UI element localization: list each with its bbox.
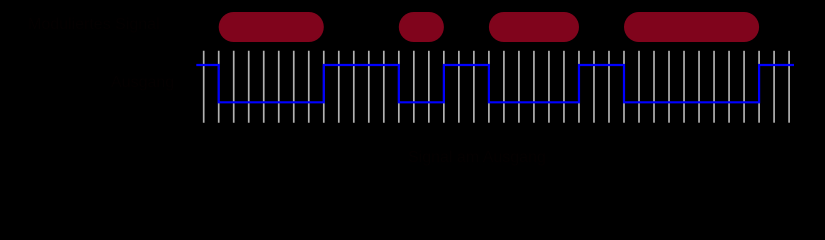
IR burst capsule 1 (219, 12, 324, 42)
IR burst capsule 2 (399, 12, 444, 42)
label: output (left of waveform) (111, 74, 174, 92)
label: output signal (bottom center) (408, 149, 546, 167)
receiver output waveform (active low) (196, 65, 794, 102)
label: modulated signal (top left, near-invisible black text) (28, 16, 160, 34)
IR burst capsule 3 (489, 12, 579, 42)
IR burst capsule 4 (624, 12, 759, 42)
carrier grid lines (40 ticks) (204, 51, 789, 123)
